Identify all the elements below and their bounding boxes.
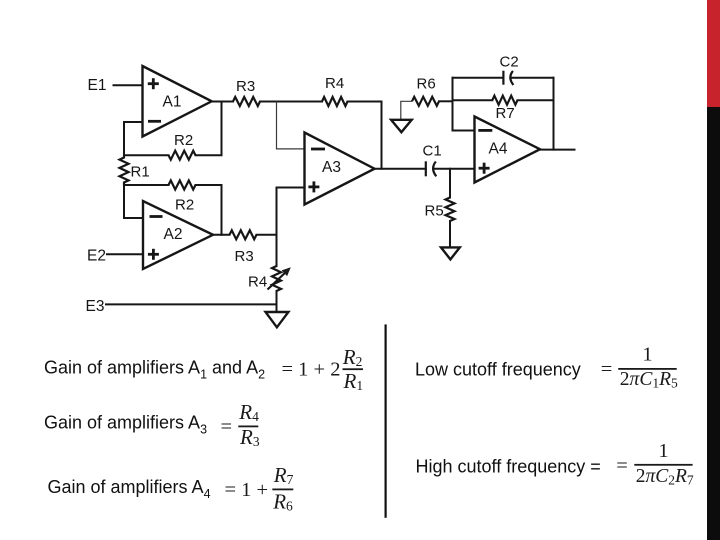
- wire A1 output: [212, 101, 233, 103]
- wire R3 to node: [257, 234, 277, 236]
- node label E3: [86, 298, 105, 315]
- svg-text:= 1 +: = 1 +: [225, 479, 269, 501]
- equation gain A1 A2: [282, 345, 364, 393]
- wire feedback rail left: [452, 78, 454, 131]
- svg-text:= 1 + 2: = 1 + 2: [282, 359, 341, 381]
- svg-text:R7: R7: [496, 105, 515, 122]
- wire C2 branch left: [453, 77, 504, 79]
- svg-text:A4: A4: [489, 141, 508, 158]
- svg-text:R4: R4: [325, 75, 344, 92]
- wire R6 left corner: [401, 101, 412, 119]
- wire node down to R5: [449, 169, 451, 198]
- wire R7 to right rail: [518, 99, 554, 101]
- wire feedback rail right: [553, 78, 555, 150]
- wire node to A3 inverting input (thin link): [277, 102, 305, 149]
- svg-text:R5: R5: [425, 203, 444, 220]
- wire A3 output to C1: [375, 168, 426, 170]
- op-amp A3: [305, 133, 375, 205]
- caption gain of amplifiers A4: [48, 477, 211, 501]
- svg-text:E2: E2: [87, 248, 106, 265]
- resistor R2 (A2 feedback): [169, 181, 196, 214]
- svg-text:R2: R2: [174, 132, 193, 149]
- svg-text:High cutoff frequency =: High cutoff frequency =: [416, 457, 601, 477]
- black sidebar strip: [707, 107, 720, 540]
- capacitor C1: [423, 143, 442, 177]
- wire R5 to ground arrow: [449, 221, 451, 247]
- svg-text:A2: A2: [164, 226, 183, 243]
- wire rail to R7: [453, 99, 493, 101]
- resistor R5: [425, 198, 455, 222]
- resistor R3 (bottom): [230, 230, 257, 265]
- resistor R3 (top): [233, 78, 260, 106]
- wire C1 to A4 noninverting input: [434, 168, 475, 170]
- wire node to A3 noninverting input: [277, 188, 305, 267]
- red sidebar strip: [707, 0, 720, 107]
- wire R4 to A3 output (feedback): [348, 102, 382, 169]
- wire C2 to right rail: [511, 77, 553, 79]
- wire A2 inverting input: [124, 185, 143, 218]
- op-amp A4: [475, 117, 541, 183]
- resistor R4 (top): [322, 75, 348, 106]
- svg-text:R1: R1: [131, 164, 150, 181]
- svg-text:=: =: [601, 359, 613, 381]
- node label E1: [88, 77, 107, 94]
- svg-text:E1: E1: [88, 77, 107, 94]
- caption high cutoff frequency: [416, 457, 601, 477]
- wire A2 output: [213, 234, 230, 236]
- ground arrow below R6: [391, 120, 412, 132]
- resistor R7: [492, 96, 517, 122]
- wire R4 to E3 node: [276, 291, 278, 312]
- svg-text:R4: R4: [248, 274, 267, 291]
- wire R2 to node R1 top: [124, 154, 169, 156]
- wire R2 to A2 output drop: [196, 185, 222, 235]
- wire R1 bottom to R2: [124, 184, 169, 186]
- resistor R2 (A1 feedback): [169, 132, 196, 160]
- svg-text:=: =: [616, 455, 628, 477]
- op-amp A2: [143, 201, 213, 269]
- wire E1 to A1 noninverting input: [114, 84, 143, 86]
- svg-text:A3: A3: [322, 159, 341, 176]
- equation gain A3: [221, 400, 260, 449]
- wire A1 inverting input: [124, 122, 143, 155]
- node label E2: [87, 248, 106, 265]
- arrow symbol below E3 node: [266, 312, 289, 327]
- variable resistor R4 (gain adjust): [248, 266, 291, 291]
- wire A1 output feedback drop: [196, 102, 222, 156]
- svg-text:C2: C2: [500, 54, 519, 71]
- svg-text:E3: E3: [86, 298, 105, 315]
- svg-text:2πC1R5: 2πC1R5: [620, 369, 678, 391]
- svg-text:1: 1: [642, 344, 652, 366]
- wire A4 inverting input: [453, 130, 475, 132]
- wire R3 to R4: [260, 101, 322, 103]
- op-amp A1: [143, 66, 212, 137]
- equation high cutoff: [616, 440, 694, 487]
- ground arrow below R5: [441, 247, 460, 259]
- wire R6 to rail: [439, 100, 453, 102]
- wire E2 to A2 noninverting input: [107, 253, 143, 255]
- svg-text:Low cutoff frequency: Low cutoff frequency: [415, 359, 581, 379]
- svg-text:A1: A1: [163, 94, 182, 111]
- svg-text:2πC2R7: 2πC2R7: [636, 466, 694, 488]
- wire E3: [106, 303, 277, 305]
- caption gain of amplifiers A3: [44, 413, 207, 437]
- svg-text:C1: C1: [423, 143, 442, 160]
- column divider line: [385, 324, 387, 517]
- equation gain A4: [225, 463, 294, 513]
- svg-text:R6: R6: [417, 76, 436, 93]
- caption low cutoff frequency: [415, 359, 581, 379]
- caption gain of amplifiers A1 and A2: [44, 358, 265, 382]
- capacitor C2: [500, 54, 519, 85]
- wire A4 output: [540, 149, 575, 151]
- resistor R6: [412, 76, 439, 106]
- svg-text:R3: R3: [235, 248, 254, 265]
- resistor R1: [120, 155, 150, 185]
- svg-text:=: =: [221, 416, 233, 438]
- svg-text:1: 1: [658, 440, 668, 462]
- svg-text:R2: R2: [175, 197, 194, 214]
- svg-text:R3: R3: [236, 78, 255, 95]
- equation low cutoff: [601, 344, 678, 391]
